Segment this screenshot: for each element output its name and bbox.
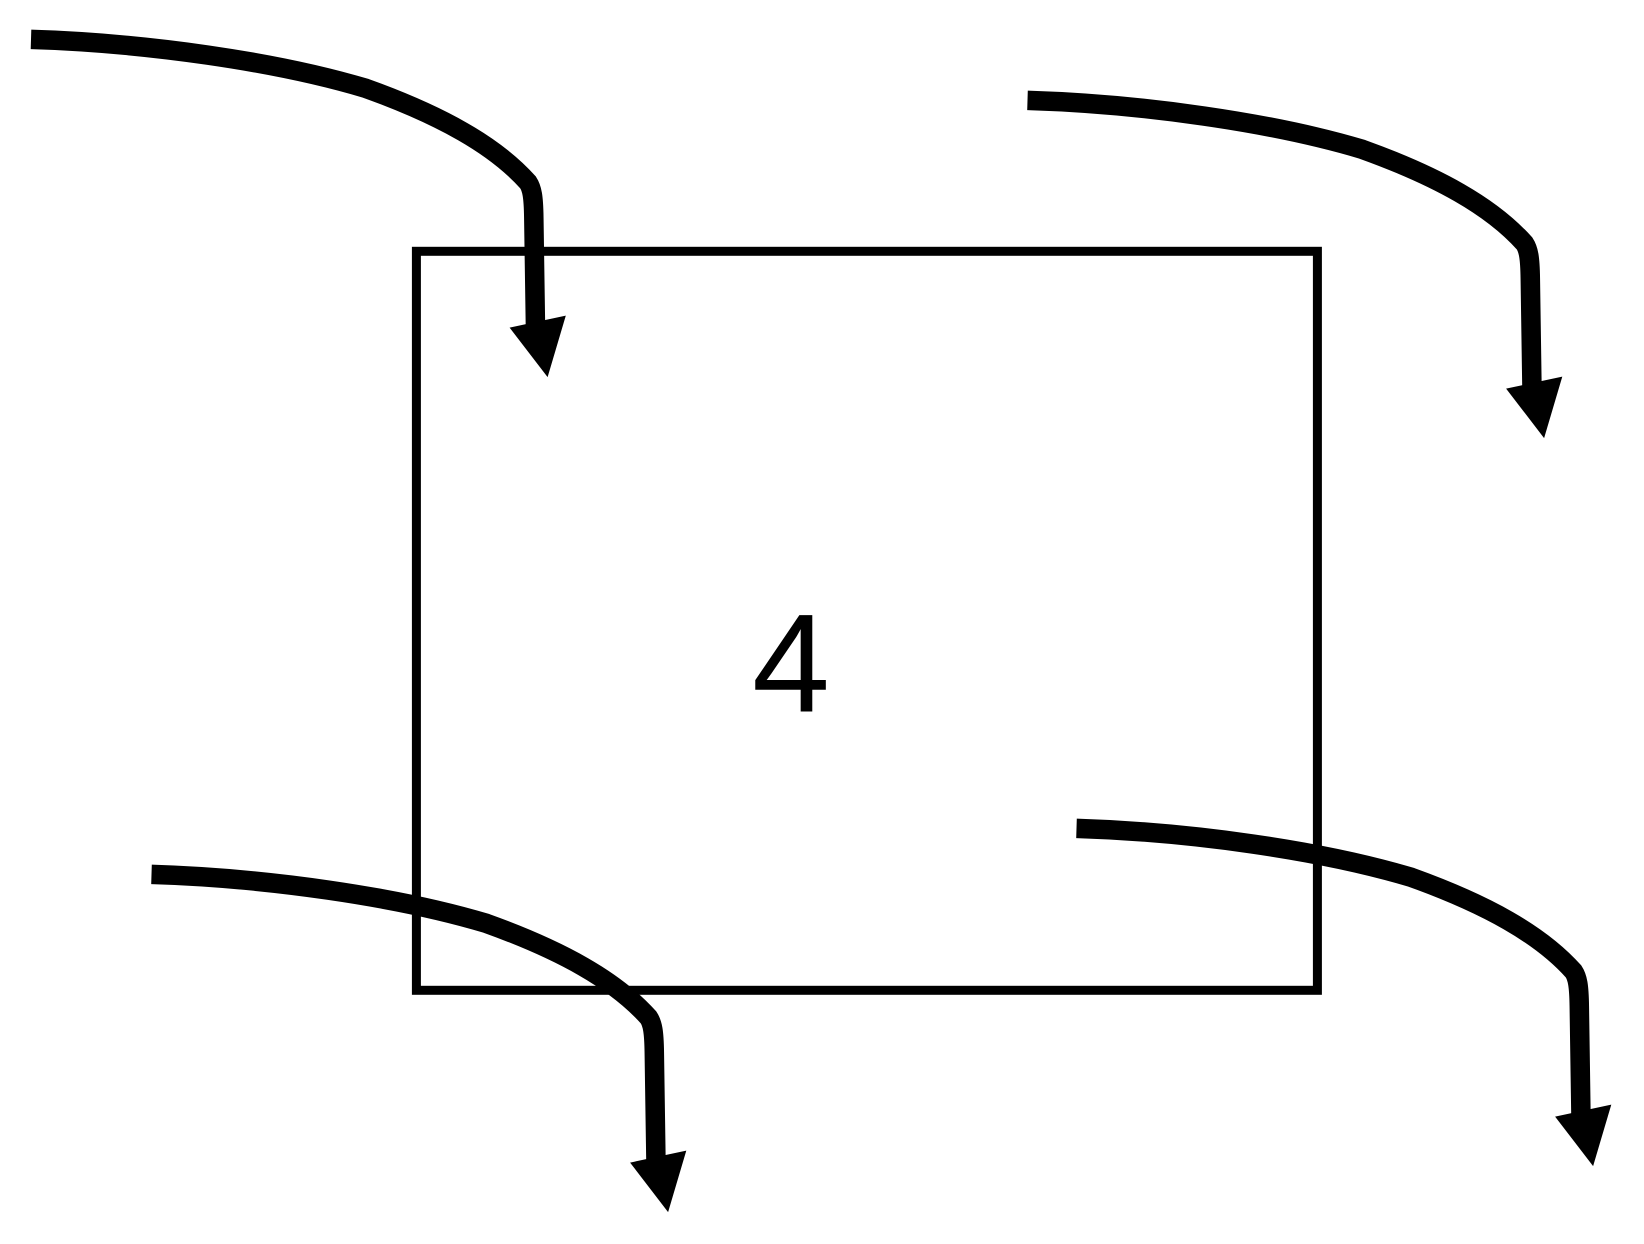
box 4 (rectangle element) xyxy=(416,251,1317,990)
arrow bottom-left xyxy=(152,874,687,1212)
svg-text:4: 4 xyxy=(752,585,830,742)
arrow top-right xyxy=(1028,100,1563,438)
arrow bottom-right xyxy=(1077,828,1612,1166)
arrow top-left xyxy=(31,39,566,377)
